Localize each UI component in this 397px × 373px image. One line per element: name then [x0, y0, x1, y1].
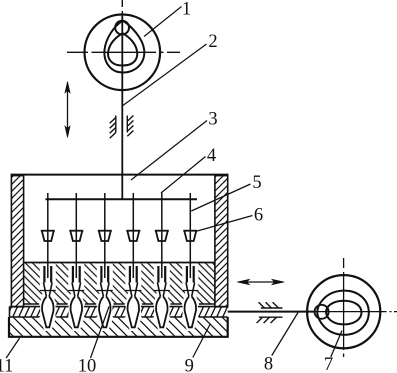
svg-text:2: 2	[208, 32, 217, 52]
cam C1 outer circle	[85, 15, 161, 91]
base plate pocket at needle N6	[182, 317, 199, 331]
slide plate pocket at needle N2	[69, 307, 84, 317]
needle N4 upper stem	[132, 193, 134, 267]
cam C7 horizontal centerline extension	[381, 311, 397, 313]
slot S2	[68, 263, 85, 306]
leader L3	[131, 121, 207, 181]
cam C1 roller circle	[115, 21, 129, 35]
cam C7 roller circle	[315, 305, 329, 319]
funnel cup F4	[126, 231, 140, 241]
cam C1 inner egg profile	[108, 33, 137, 65]
slot S6	[182, 263, 199, 306]
rod guide lower	[257, 317, 283, 323]
needle N3 piston	[101, 262, 108, 283]
guide block top edge	[24, 262, 215, 264]
needle N6 bulb tip	[185, 297, 196, 328]
needle N4 taper	[129, 283, 138, 297]
rod guide left	[110, 116, 116, 139]
cam C7 vertical centerline	[343, 258, 345, 357]
needle N1 taper	[44, 283, 53, 297]
base plate pocket at needle N3	[96, 317, 113, 331]
needle N3 upper stem	[104, 193, 106, 267]
needle N2 taper	[72, 283, 81, 297]
needle N4 bulb tip	[128, 297, 139, 328]
base plate pocket at needle N5	[153, 317, 170, 331]
slide plate pocket at needle N4	[126, 307, 141, 317]
cam C7 middle egg profile	[317, 291, 369, 335]
svg-text:10: 10	[78, 356, 97, 373]
tank right wall	[215, 176, 228, 307]
leader L1	[144, 7, 182, 37]
funnel cup F2	[69, 231, 83, 241]
needle N6 piston	[187, 262, 194, 283]
slide plate pocket at needle N6	[183, 307, 198, 317]
slot S1	[39, 263, 56, 306]
slide rod R8	[228, 311, 315, 313]
slot S4	[125, 263, 142, 306]
needle N3 taper	[101, 283, 110, 297]
funnel cup F6	[183, 231, 197, 241]
svg-text:7: 7	[324, 355, 333, 373]
svg-text:9: 9	[185, 356, 194, 373]
leader L11	[6, 338, 19, 358]
svg-text:11: 11	[0, 356, 13, 373]
carrier bar B4	[46, 198, 198, 200]
leader L8	[272, 313, 298, 356]
svg-text:3: 3	[208, 110, 217, 130]
tank left wall	[11, 176, 23, 307]
needle N5 piston	[158, 262, 165, 283]
guide block bottom edge	[24, 303, 215, 305]
cam C7 inner horizontal line	[315, 311, 381, 313]
leader L5	[191, 184, 250, 211]
svg-text:4: 4	[207, 146, 216, 166]
slide plate pocket at needle N3	[97, 307, 112, 317]
funnel cup F3	[98, 231, 112, 241]
tank top edge	[11, 174, 229, 176]
svg-text:8: 8	[264, 355, 273, 373]
needle N1 piston	[44, 262, 51, 283]
slot S3	[96, 263, 113, 306]
needle N4 piston	[130, 262, 137, 283]
needle N2 upper stem	[75, 193, 77, 267]
base plate outline	[9, 317, 228, 337]
cam C1 horizontal centerline	[67, 51, 180, 53]
needle N2 piston	[73, 262, 80, 283]
funnel cup F1	[41, 231, 55, 241]
slide plate P10 edges	[10, 307, 228, 317]
guide block body	[24, 263, 215, 305]
cam C7 inner egg profile	[326, 301, 362, 325]
base plate body	[9, 317, 228, 337]
rod guide upper	[259, 302, 283, 308]
base plate pocket at needle N2	[68, 317, 85, 331]
svg-text:5: 5	[252, 173, 261, 193]
needle N2 bulb tip	[71, 297, 82, 328]
leader L6	[197, 216, 252, 232]
cam C7 outer circle	[307, 275, 380, 348]
needle N5 taper	[158, 283, 167, 297]
svg-text:1: 1	[182, 0, 191, 20]
funnel cup F5	[155, 231, 169, 241]
base plate pocket at needle N4	[125, 317, 142, 331]
cam C1 middle egg profile	[104, 21, 144, 73]
slide plate P10 left end cap	[9, 307, 11, 317]
slide plate pocket at needle N1	[40, 307, 55, 317]
leader L4	[161, 157, 206, 194]
slot S5	[153, 263, 170, 306]
leader L7	[331, 331, 342, 358]
slide plate pocket at needle N5	[154, 307, 169, 317]
svg-text:6: 6	[254, 206, 263, 226]
up-down motion arrow	[65, 82, 70, 138]
leader L10	[91, 307, 110, 359]
slide plate P10 body	[10, 307, 228, 317]
needle N6 taper	[186, 283, 195, 297]
needle N1 upper stem	[47, 193, 49, 267]
needle N1 bulb tip	[42, 297, 53, 328]
leader L9	[193, 324, 211, 358]
needle N5 bulb tip	[156, 297, 167, 328]
left-right motion arrow	[237, 279, 284, 284]
needle N3 bulb tip	[99, 297, 110, 328]
base plate pocket at needle N1	[39, 317, 56, 331]
push rod R2	[121, 16, 123, 200]
needle N5 upper stem	[161, 193, 163, 267]
leader L2	[123, 44, 207, 106]
rod guide right	[127, 116, 133, 137]
cam C1 vertical centerline	[121, 0, 123, 16]
needle N6 upper stem	[189, 193, 191, 267]
